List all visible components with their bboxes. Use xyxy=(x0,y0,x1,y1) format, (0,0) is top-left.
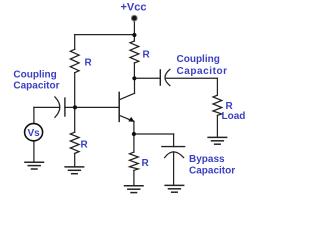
resistor R1 (upper bias) zigzag xyxy=(70,49,79,72)
svg-text:Coupling: Coupling xyxy=(177,54,220,65)
wire: emitter junction to bypass capacitor xyxy=(134,133,174,135)
ground (lower bias R3) xyxy=(64,167,84,174)
transistor Q1 collector diagonal xyxy=(119,93,134,100)
wire: R3 to ground xyxy=(74,153,76,167)
wire: Vcc terminal to top rail xyxy=(133,21,135,36)
wire: top rail xyxy=(75,34,135,36)
wire: load resistor to ground xyxy=(216,115,218,137)
wire: R2 bottom to collector junction xyxy=(133,63,135,78)
wire: emitter down to junction xyxy=(133,121,135,134)
transistor Q1 bar xyxy=(118,92,120,121)
resistor R load zigzag xyxy=(213,95,222,115)
wire: rail down to R1 xyxy=(74,35,76,50)
transistor Q1 emitter arrowhead xyxy=(128,117,134,122)
junction: emitter node xyxy=(132,132,136,136)
ground (load) xyxy=(207,137,227,144)
resistor R2 (collector) zigzag xyxy=(130,41,139,63)
svg-text:Bypass: Bypass xyxy=(189,154,225,165)
wire: base node to transistor base xyxy=(65,106,119,108)
capacitor C1 curved plate (input coupling) xyxy=(55,97,60,117)
ground (bypass C3) xyxy=(164,185,184,192)
junction: collector node xyxy=(132,76,136,80)
ground (Vs) xyxy=(24,162,44,169)
wire: R4 to ground xyxy=(133,170,135,185)
wire: down to Vs source xyxy=(33,107,35,123)
resistor R3 (lower bias) zigzag xyxy=(70,132,79,153)
svg-text:+Vcc: +Vcc xyxy=(121,2,147,14)
wire: collector resistor top lead xyxy=(133,35,135,41)
transistor Q1 emitter diagonal xyxy=(119,115,134,121)
wire: collector up to junction xyxy=(134,78,136,93)
svg-text:R: R xyxy=(81,140,89,151)
svg-text:Capacitor: Capacitor xyxy=(189,166,235,177)
svg-text:Vs: Vs xyxy=(27,128,40,139)
wire: bypass capacitor to ground xyxy=(173,152,175,186)
wire: emitter junction down to R4 xyxy=(133,134,135,152)
capacitor C3 curved plate xyxy=(165,152,184,158)
capacitor C1 straight plate xyxy=(64,98,66,116)
svg-text:R: R xyxy=(143,50,151,61)
capacitor C2 curved plate xyxy=(165,69,170,85)
junction: base node xyxy=(73,105,77,109)
svg-text:Coupling: Coupling xyxy=(13,70,56,81)
wire: down to load resistor xyxy=(216,78,218,95)
svg-text:Capacitor: Capacitor xyxy=(13,81,59,92)
junction: top rail xyxy=(132,33,136,37)
wire: base junction down to R3 xyxy=(74,107,76,132)
wire: collector junction to output capacitor xyxy=(134,77,160,79)
ground (emitter R4) xyxy=(124,186,144,193)
wire: R1 to base node xyxy=(74,73,76,108)
wire: Vs to input capacitor xyxy=(34,106,60,108)
resistor R4 (emitter) zigzag xyxy=(130,152,139,170)
svg-text:R: R xyxy=(142,158,150,169)
svg-text:R: R xyxy=(85,58,93,69)
capacitor C3 straight plate (bypass) xyxy=(162,146,185,148)
wire: Vs to ground xyxy=(33,141,35,162)
svg-text:Capacitor: Capacitor xyxy=(177,66,228,77)
Vcc terminal xyxy=(131,15,137,21)
source Vs circle xyxy=(25,124,43,141)
svg-text:Load: Load xyxy=(222,111,246,122)
capacitor C2 straight plate (output coupling) xyxy=(159,70,161,85)
wire: bypass capacitor top lead xyxy=(173,134,175,147)
wire: output capacitor to load corner xyxy=(166,77,218,79)
